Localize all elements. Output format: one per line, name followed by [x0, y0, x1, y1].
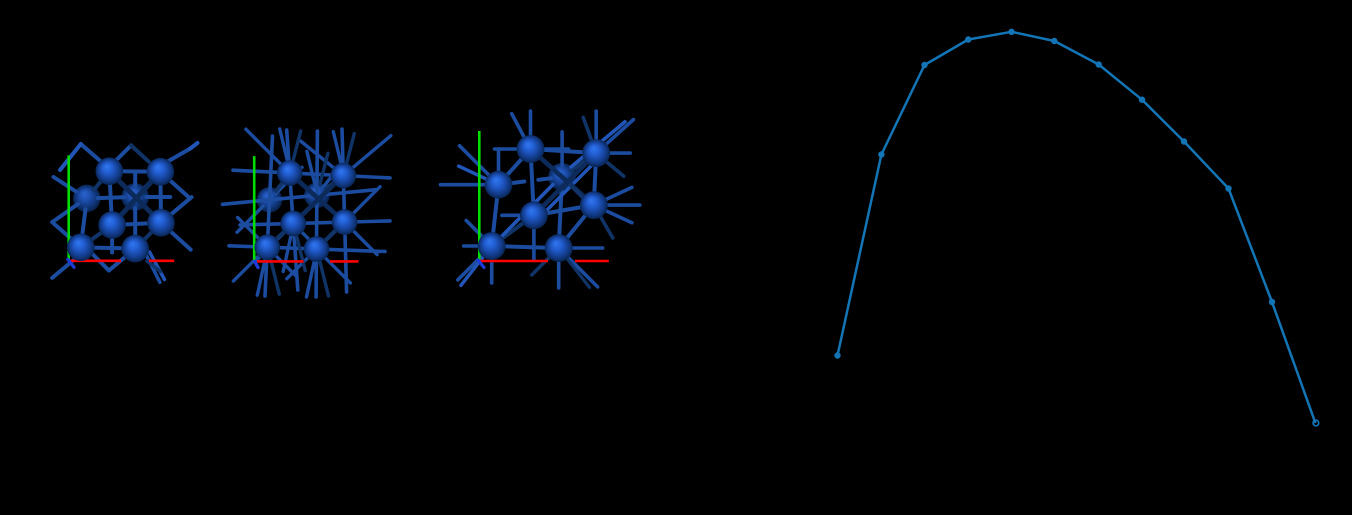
- marker point 5: [1008, 29, 1014, 35]
- red axis C: [480, 260, 548, 263]
- blue axis stub A: [68, 259, 74, 267]
- marker point 2: [878, 151, 884, 157]
- blue axis stub C: [478, 260, 484, 268]
- marker point 11: [1269, 299, 1275, 305]
- marker point 10: [1225, 185, 1231, 191]
- red axis B: [257, 260, 304, 263]
- marker point 12: [1313, 420, 1319, 426]
- red axis A: [70, 259, 121, 262]
- green axis A: [67, 155, 70, 259]
- green axis C: [478, 131, 481, 260]
- marker point 6: [1051, 38, 1057, 44]
- marker point 4: [965, 36, 971, 42]
- marker point 8: [1139, 97, 1145, 103]
- marker point 3: [921, 62, 927, 68]
- bond X front face B: [296, 179, 338, 216]
- marker point 7: [1096, 61, 1102, 67]
- crystal structure C (right): [441, 111, 640, 288]
- marker point 9: [1181, 138, 1187, 144]
- long diagonal bonds C: [500, 185, 553, 239]
- bond X front face: [116, 178, 155, 217]
- marker point 1: [834, 352, 840, 358]
- crystal structure A (left): [52, 143, 197, 282]
- crystal structure B (middle): [223, 129, 391, 297]
- green axis B: [253, 156, 256, 261]
- blue axis stub B: [255, 261, 258, 267]
- data line: [838, 32, 1316, 423]
